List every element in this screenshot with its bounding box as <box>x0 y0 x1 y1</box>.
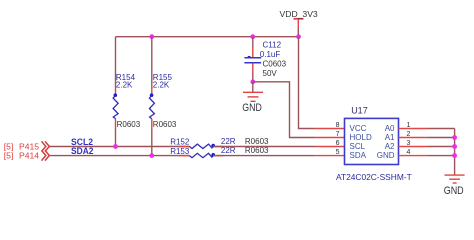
pin 1 stub <box>399 128 429 130</box>
power symbol VDD_3V3 <box>280 9 318 37</box>
resistor R152 <box>170 137 269 149</box>
svg-text:C112: C112 <box>263 41 282 50</box>
svg-text:2.2K: 2.2K <box>153 81 170 90</box>
node junction R155 top <box>149 34 154 39</box>
svg-text:5: 5 <box>336 149 340 156</box>
pin 4 stub <box>399 155 429 157</box>
svg-text:22R: 22R <box>221 146 236 155</box>
ground symbol GND left <box>242 82 263 114</box>
svg-text:R152: R152 <box>170 138 190 147</box>
capacitor C112 <box>244 37 286 82</box>
IC U17 AT24C02C-SSHM-T <box>336 106 412 183</box>
svg-text:P414: P414 <box>19 151 39 161</box>
svg-text:50V: 50V <box>263 69 278 78</box>
ground symbol GND right <box>444 175 465 197</box>
svg-text:GND: GND <box>377 151 395 160</box>
wire pin 1 to GND bus <box>429 128 455 130</box>
pin 3 stub <box>399 146 429 148</box>
wire HOLD net from C112 GND to pin 7 <box>253 82 315 138</box>
svg-text:A1: A1 <box>385 133 395 142</box>
svg-text:R0603: R0603 <box>153 120 177 129</box>
pin 8 stub <box>315 128 345 130</box>
wire top VDD horizontal <box>116 36 299 38</box>
svg-text:SDA: SDA <box>350 151 367 160</box>
wire pin 2 to GND bus <box>429 137 455 139</box>
svg-text:R0603: R0603 <box>245 146 269 155</box>
wire SCL2 left segment <box>49 146 189 148</box>
resistor R153 <box>170 146 269 158</box>
node junction R155 on SDA2 <box>149 153 154 158</box>
pin 7 stub <box>315 137 345 139</box>
svg-text:6: 6 <box>336 140 340 147</box>
wire SDA2 right segment to pin 5 <box>213 155 314 157</box>
svg-text:8: 8 <box>336 122 340 129</box>
svg-text:GND: GND <box>242 102 262 114</box>
svg-text:R0603: R0603 <box>117 120 141 129</box>
pin 6 stub <box>315 146 345 148</box>
wire SCL2 right segment to pin 6 <box>213 146 314 148</box>
pin 2 stub <box>399 137 429 139</box>
svg-text:0.1uF: 0.1uF <box>260 50 281 59</box>
svg-text:C0603: C0603 <box>263 60 287 69</box>
node junction bus pin 2 <box>452 135 457 140</box>
wire VCC vertical to pin 8 <box>299 37 315 129</box>
svg-text:VDD_3V3: VDD_3V3 <box>280 9 318 19</box>
svg-text:R0603: R0603 <box>245 137 269 146</box>
resistor R154 <box>113 37 141 147</box>
wire pin 3 to GND bus <box>429 146 455 148</box>
node junction bus pin 4 <box>452 153 457 158</box>
svg-text:SCL: SCL <box>350 142 366 151</box>
svg-text:VCC: VCC <box>350 124 367 133</box>
off-page connector P414 <box>4 150 50 160</box>
pin 5 stub <box>315 155 345 157</box>
svg-text:[5]: [5] <box>4 151 14 161</box>
svg-text:HOLD: HOLD <box>350 133 372 142</box>
node junction R154 on SCL2 <box>113 144 118 149</box>
svg-text:22R: 22R <box>221 137 236 146</box>
svg-text:7: 7 <box>336 131 340 138</box>
node junction VDD stem <box>296 34 301 39</box>
resistor R155 <box>149 37 177 156</box>
svg-text:A2: A2 <box>385 142 395 151</box>
svg-text:A0: A0 <box>385 124 395 133</box>
wire GND bus vertical <box>454 129 456 176</box>
wire SDA2 left segment <box>49 155 189 157</box>
node junction C112 bottom / GND <box>250 79 255 84</box>
svg-text:GND: GND <box>444 185 464 197</box>
node junction bus pin 3 <box>452 144 457 149</box>
svg-text:AT24C02C-SSHM-T: AT24C02C-SSHM-T <box>336 172 412 182</box>
off-page connector P415 <box>4 141 50 151</box>
wire pin 4 to GND bus <box>429 155 455 157</box>
svg-text:2.2K: 2.2K <box>116 81 133 90</box>
svg-text:R153: R153 <box>170 147 190 156</box>
svg-text:U17: U17 <box>351 106 368 116</box>
node junction C112 top <box>250 34 255 39</box>
